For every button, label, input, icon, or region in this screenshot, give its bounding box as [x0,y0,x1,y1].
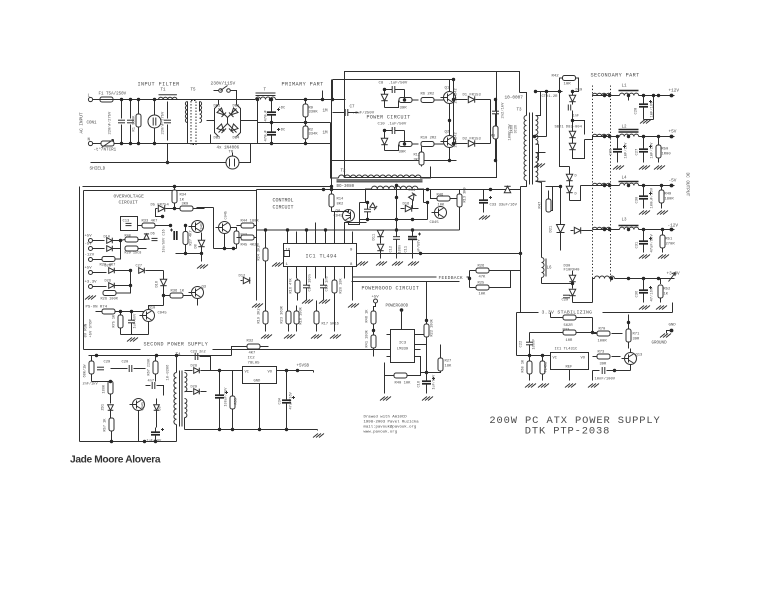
svg-text:R17 5K16: R17 5K16 [322,323,339,327]
wire [449,121,451,136]
wire [551,317,563,319]
wire [546,92,548,137]
svg-text:+5V: +5V [85,267,93,271]
svg-text:-5V: -5V [85,243,93,247]
wire [255,190,257,238]
wire [194,208,205,210]
wire [130,125,132,144]
wire [334,294,336,332]
wire [257,189,346,191]
diode D8 [198,240,204,246]
svg-text:R71: R71 [633,333,641,337]
node junction [627,94,630,97]
node junction [571,90,574,93]
svg-text:4n7: 4n7 [148,380,154,384]
wire [93,286,107,288]
svg-text:C30: C30 [636,196,640,204]
node junction [330,188,333,191]
wire [233,370,243,372]
transistor TR [226,156,239,169]
wire [156,208,158,210]
diode D27 [139,268,145,274]
wire [258,143,331,145]
wire [585,137,593,140]
ground T3 center [534,164,545,168]
capacitor C26 [613,148,622,150]
node POWERGOOD [400,308,404,312]
wire pin bottom 7 [344,267,346,279]
ground C28 [640,120,651,124]
inductor T1a [159,97,177,99]
wire [387,334,391,336]
inductor T3 sec b [536,153,538,182]
wire [415,357,421,373]
svg-text:4K7: 4K7 [249,352,256,356]
wire [540,92,542,109]
svg-text:100R: 100R [598,340,608,344]
node junction [627,184,630,187]
wire [469,271,471,288]
capacitor C10 [391,127,393,134]
wire [130,271,132,286]
svg-text:1M: 1M [323,110,329,114]
svg-text:L3: L3 [622,219,628,223]
op-amp IC3 LM339 [391,330,415,363]
wire [577,332,597,334]
wire [305,139,307,144]
svg-text:D2 FR153: D2 FR153 [463,138,482,142]
wire [131,323,133,335]
svg-text:+DC: +DC [279,129,287,133]
ground R19 [261,335,272,339]
svg-text:100nF: 100nF [533,339,537,350]
svg-text:180R: 180R [665,198,675,202]
node junction [616,135,619,138]
svg-text:R27 4K7: R27 4K7 [190,230,194,245]
wire [353,276,437,278]
wire [639,136,675,138]
svg-text:-5V: -5V [669,179,677,184]
wire [517,312,539,314]
wire [331,207,333,212]
diode D11b [377,244,383,250]
diode D1 [468,96,474,102]
svg-text:470uF: 470uF [265,109,269,121]
svg-text:R50: R50 [662,148,670,152]
transformer T5 [185,102,187,123]
wire [116,311,144,313]
wire pin bottom 1 [287,267,289,279]
svg-text:INPUT FILTER: INPUT FILTER [138,82,180,88]
wire [639,95,675,97]
wire [213,208,215,249]
node -12V [670,228,674,232]
wire [256,238,258,301]
wire [306,288,308,301]
wire [114,99,251,101]
wire [672,303,674,313]
wire [536,180,546,182]
resistor R52 [658,285,663,298]
node junction [642,184,645,187]
svg-text:47uF/16V: 47uF/16V [289,391,294,409]
node junction [304,121,307,124]
wire [572,102,574,105]
wire [224,234,226,249]
wire [573,302,593,304]
wire [548,191,550,200]
wire [201,254,203,262]
wire [546,186,561,188]
wire [265,324,267,332]
diode D23a [566,174,572,180]
diode D23b [566,186,572,192]
wire [352,281,460,283]
resistor R49 [659,190,664,203]
node junction [231,428,234,431]
wire [367,212,369,220]
wire [276,99,346,101]
svg-text:R36 1K: R36 1K [171,290,185,294]
svg-text:+5VSB: +5VSB [297,365,310,369]
svg-text:C26: C26 [610,148,614,156]
wire [334,212,336,232]
svg-text:+5V: +5V [669,130,677,135]
svg-text:562R: 562R [564,324,574,328]
node junction [627,135,630,138]
svg-text:1uF/50V: 1uF/50V [432,374,437,390]
wire [316,324,318,332]
node junction [258,428,261,431]
inductor T3 sec a [536,116,538,145]
wire [163,296,165,306]
node junction [256,98,259,101]
wire [277,370,314,372]
wire [345,223,367,232]
wire [257,229,460,231]
wire [156,225,171,227]
wire [259,384,261,430]
node junction [119,310,122,313]
thermistor NTCR1 [101,141,114,146]
node junction [129,269,132,272]
wire [593,185,620,187]
transistor Q7 [219,222,231,234]
svg-text:2SC4242: 2SC4242 [455,132,459,147]
svg-text:R22 100K: R22 100K [431,318,435,336]
node junction [558,90,561,93]
svg-text:Drawed with Am10CD: Drawed with Am10CD [364,415,408,420]
node term -5V [89,247,93,251]
transistor Q5 [192,221,204,233]
wire [643,293,645,303]
node junction [627,321,630,324]
capacitor C18b [151,431,160,433]
wire [155,428,157,433]
svg-text:10R: 10R [564,83,572,87]
node junction [494,159,497,162]
wire [380,237,382,244]
wire [149,306,164,310]
node junction [161,215,164,218]
svg-text:+DC: +DC [279,107,287,111]
svg-text:C945: C945 [225,211,229,219]
diode D29 [194,389,200,395]
wire [435,143,444,145]
svg-text:0V RUN: 0V RUN [85,324,89,338]
svg-text:D26: D26 [105,280,111,284]
resistor R46 [437,196,450,201]
wire [164,295,170,297]
wire [560,137,570,167]
inductor T3 primary [524,116,527,181]
svg-text:100uF/16V: 100uF/16V [650,187,655,208]
wire [113,240,121,242]
svg-text:78L05: 78L05 [248,362,261,366]
node junction [448,119,451,122]
ground R20b [330,335,341,339]
svg-text:R49: R49 [665,193,673,197]
wire [373,331,375,336]
wire [261,346,269,348]
wire [121,334,149,336]
wire [628,323,630,330]
wire [384,130,393,132]
wire [658,158,660,163]
wire [334,293,336,301]
svg-text:T2: T2 [341,170,347,174]
inductor L1 [620,93,639,95]
svg-text:C945: C945 [158,312,168,316]
svg-text:D21: D21 [550,225,554,233]
wire [199,102,201,112]
node junction [285,369,288,372]
wire [536,91,563,93]
wire [93,259,105,261]
wire [459,207,461,214]
wire [483,190,485,201]
wire [380,251,382,259]
svg-text:T5: T5 [191,89,197,93]
wire [167,102,169,119]
wire [113,241,121,249]
node junction [120,98,123,101]
svg-text:D8: D8 [195,244,199,248]
svg-text:D6: D6 [151,233,155,237]
diode D26 [109,283,115,289]
node junction [173,185,176,188]
wire [615,278,675,280]
wire [346,189,521,191]
svg-text:C945: C945 [430,221,440,225]
resistor R41a [125,246,138,251]
wire [592,318,594,333]
wire [495,123,497,127]
wire [630,349,632,353]
svg-text:R32: R32 [247,340,255,344]
wire [352,279,354,301]
diode DB4 [229,124,238,133]
wire [384,90,386,95]
node term -12V [89,258,93,262]
wire [130,100,132,119]
wire [395,130,405,132]
svg-text:D: D [575,175,577,179]
wire [536,181,542,250]
wire [239,144,251,163]
node terminal N [88,141,92,145]
svg-text:1R00: 1R00 [662,153,672,157]
svg-text:D9: D9 [159,406,163,410]
capacitor C29b [563,294,570,296]
node junction [603,135,606,138]
wire [592,371,594,381]
wire [359,203,361,220]
op-amp IC1 TL494 [284,244,357,267]
wire [420,167,431,179]
svg-text:C10 .1uF/50V: C10 .1uF/50V [378,122,407,127]
inductor L4 [620,183,639,185]
wire [155,356,157,362]
svg-text:F1 T5A/250V: F1 T5A/250V [99,92,127,97]
wire [572,111,574,121]
diode D16 [405,205,411,211]
wire [331,80,333,100]
svg-text:mail:pavouk@pavouk.org: mail:pavouk@pavouk.org [364,425,417,430]
svg-text:R29 15C8: R29 15C8 [125,252,142,256]
node term +3.3V [89,285,93,289]
transformer T3 core [529,113,531,185]
wire [305,117,307,123]
svg-text:POWERGOOD CIRCUIT: POWERGOOD CIRCUIT [362,286,420,292]
wire [287,279,289,312]
wire [607,370,631,372]
svg-text:R10 2R2: R10 2R2 [421,137,438,141]
node -5V [670,184,674,188]
svg-text:D: D [575,193,577,197]
wire [571,230,574,232]
resistor R7 [399,98,412,103]
wire [572,150,574,157]
diode DB1 [217,108,226,117]
wire [603,312,673,314]
wire [197,299,199,306]
wire [111,431,113,442]
wire [521,181,527,187]
resistor R44 [241,223,254,228]
svg-text:-12V: -12V [85,254,95,258]
node junction [383,129,386,132]
wire [219,398,221,430]
wire [121,100,123,119]
capacitor C6 [492,110,499,112]
wire [296,324,298,332]
wire [251,120,258,122]
wire [560,233,562,251]
diode DB3 [217,124,226,133]
resistor R36 [170,293,183,298]
svg-text:D1 FR153: D1 FR153 [463,94,482,98]
wire [535,136,547,138]
svg-text:R12: R12 [414,154,420,158]
svg-text:C27: C27 [136,265,142,269]
wire [91,162,227,164]
resistor R16 [295,280,300,293]
wire [569,370,571,381]
node junction [264,228,267,231]
node junction [395,228,398,231]
svg-text:D10: D10 [104,236,110,240]
resistor R51 [660,235,665,248]
svg-text:GND: GND [669,324,677,328]
svg-text:REF: REF [566,366,574,370]
wire [643,137,645,150]
resistor R40b2 [394,373,407,378]
svg-text:PRIMARY PART: PRIMARY PART [282,82,324,88]
node junction [321,98,324,101]
diode SBD1a [569,131,575,137]
diode D4 [381,138,387,144]
resistor R72 [563,315,576,320]
ground 3v3 [588,384,599,388]
wire [643,107,645,120]
capacitor C1 470u [267,111,276,113]
wire [231,91,237,105]
node junction [627,277,630,280]
diode D18 [160,279,166,285]
transformer T2 primary [339,175,422,178]
svg-text:+5V STOP: +5V STOP [90,319,94,338]
svg-text:SECONDARY PART: SECONDARY PART [591,73,640,79]
node junction [541,354,544,357]
svg-text:C29: C29 [562,299,570,303]
wire [175,208,180,210]
diode D35 [158,205,164,211]
capacitor C34 [282,399,291,401]
wire [155,374,157,382]
node junction [129,284,132,287]
capacitor C36 [639,289,648,291]
svg-text:1nF: 1nF [573,115,579,119]
wire [617,137,619,150]
wire [385,145,399,151]
wire [662,248,664,253]
wire [569,167,571,175]
capacitor C33 [479,199,488,201]
wire [576,78,579,92]
wire [333,79,454,81]
node junction [109,380,112,383]
node junction [403,142,406,145]
wire [572,282,574,289]
svg-text:DB3: DB3 [214,137,222,141]
ground R49 [657,211,668,215]
resistor R25 [476,285,489,290]
wire [286,371,288,401]
node junction [425,371,428,374]
node junction [426,188,429,191]
wire [305,100,307,105]
node junction [169,224,172,227]
ground C33 [479,216,490,220]
svg-text:R19 2K2: R19 2K2 [258,308,262,323]
svg-text:R55: R55 [235,398,239,404]
wire [93,99,100,101]
ground C36 [639,306,650,310]
wire [237,105,241,137]
wire [520,93,527,116]
svg-text:R1 560K: R1 560K [133,115,137,132]
